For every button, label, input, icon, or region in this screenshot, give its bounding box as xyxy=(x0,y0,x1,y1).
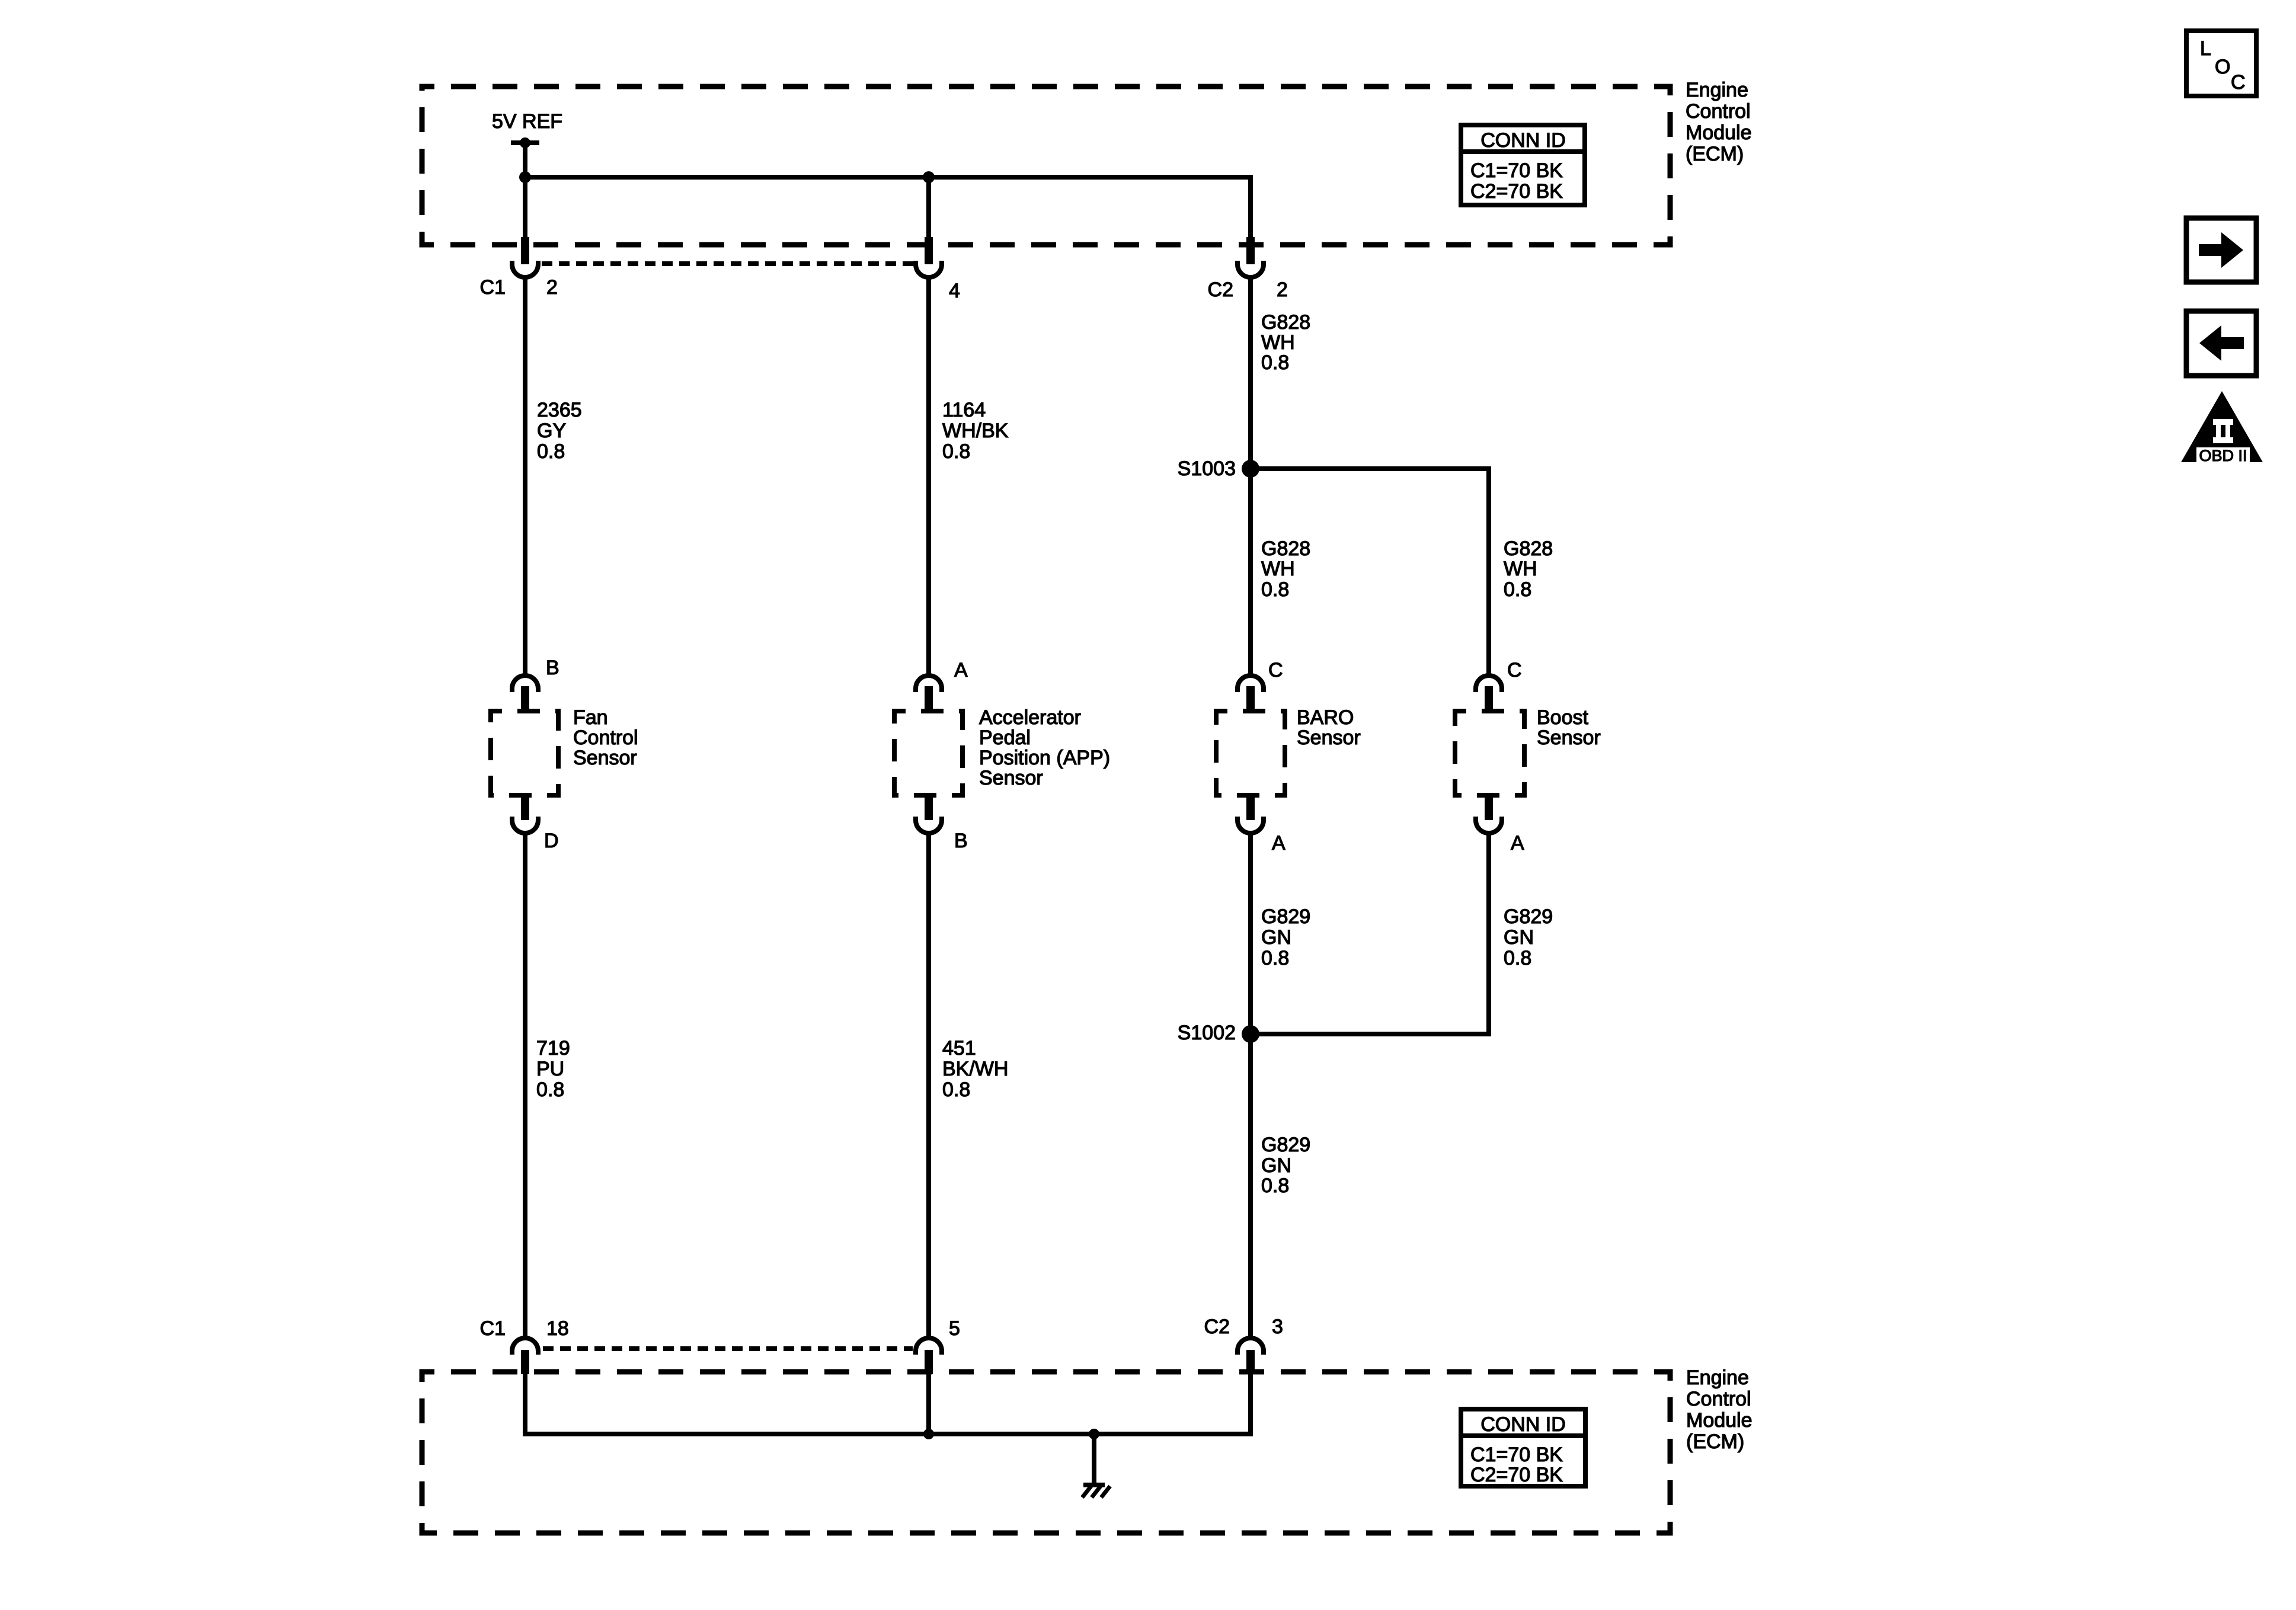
svg-text:719: 719 xyxy=(536,1037,570,1060)
svg-text:Module: Module xyxy=(1686,1409,1753,1432)
svg-text:GN: GN xyxy=(1261,926,1291,949)
svg-text:Pedal: Pedal xyxy=(979,726,1031,749)
svg-text:PU: PU xyxy=(536,1058,564,1080)
svg-text:WH: WH xyxy=(1504,558,1537,580)
svg-text:0.8: 0.8 xyxy=(942,1078,970,1101)
svg-text:18: 18 xyxy=(546,1317,569,1340)
svg-text:G828: G828 xyxy=(1261,537,1310,560)
svg-text:GY: GY xyxy=(537,420,566,442)
svg-text:0.8: 0.8 xyxy=(1261,578,1289,601)
svg-text:2365: 2365 xyxy=(537,399,582,421)
svg-text:L: L xyxy=(2200,37,2211,60)
svg-text:C1: C1 xyxy=(480,1317,506,1340)
svg-text:CONN ID: CONN ID xyxy=(1480,129,1566,152)
svg-text:Control: Control xyxy=(1686,1388,1751,1410)
svg-text:G828: G828 xyxy=(1504,537,1553,560)
svg-text:WH: WH xyxy=(1261,331,1295,354)
svg-text:B: B xyxy=(954,830,968,852)
svg-text:5V REF: 5V REF xyxy=(492,110,562,133)
svg-text:GN: GN xyxy=(1504,926,1534,949)
svg-text:0.8: 0.8 xyxy=(536,1078,564,1101)
svg-text:BARO: BARO xyxy=(1297,706,1354,729)
svg-text:Control: Control xyxy=(1686,100,1751,123)
svg-text:C1=70 BK: C1=70 BK xyxy=(1470,1443,1563,1466)
svg-text:C1: C1 xyxy=(480,276,506,299)
svg-text:G829: G829 xyxy=(1504,905,1553,928)
svg-text:A: A xyxy=(1272,832,1285,854)
svg-text:Sensor: Sensor xyxy=(979,767,1043,789)
svg-text:Boost: Boost xyxy=(1537,706,1588,729)
svg-text:0.8: 0.8 xyxy=(1504,947,1531,969)
svg-text:0.8: 0.8 xyxy=(1261,351,1289,374)
svg-text:1164: 1164 xyxy=(942,399,986,421)
svg-text:5: 5 xyxy=(949,1317,960,1340)
svg-text:451: 451 xyxy=(942,1037,976,1060)
svg-text:Engine: Engine xyxy=(1686,1366,1749,1389)
svg-text:C: C xyxy=(1507,659,1522,681)
svg-text:OBD II: OBD II xyxy=(2199,447,2247,465)
svg-text:0.8: 0.8 xyxy=(1504,578,1531,601)
svg-text:Module: Module xyxy=(1686,121,1752,144)
svg-text:C2=70 BK: C2=70 BK xyxy=(1470,180,1563,203)
svg-text:C: C xyxy=(2231,71,2246,94)
svg-text:C2=70 BK: C2=70 BK xyxy=(1470,1464,1563,1486)
svg-text:Sensor: Sensor xyxy=(1297,726,1361,749)
svg-text:(ECM): (ECM) xyxy=(1686,143,1744,165)
svg-text:C2: C2 xyxy=(1204,1315,1230,1338)
svg-text:Accelerator: Accelerator xyxy=(979,706,1081,729)
svg-text:Sensor: Sensor xyxy=(1537,726,1601,749)
svg-text:0.8: 0.8 xyxy=(1261,1174,1289,1197)
svg-text:Position (APP): Position (APP) xyxy=(979,747,1110,769)
svg-text:0.8: 0.8 xyxy=(537,440,565,463)
svg-text:Engine: Engine xyxy=(1686,79,1748,101)
svg-text:G829: G829 xyxy=(1261,905,1310,928)
svg-text:Sensor: Sensor xyxy=(573,747,637,769)
svg-text:Control: Control xyxy=(573,726,638,749)
svg-text:WH: WH xyxy=(1261,558,1295,580)
svg-text:Fan: Fan xyxy=(573,706,608,729)
svg-text:2: 2 xyxy=(546,276,558,299)
svg-text:B: B xyxy=(546,657,559,679)
svg-text:4: 4 xyxy=(949,280,960,302)
svg-text:GN: GN xyxy=(1261,1154,1291,1177)
svg-text:3: 3 xyxy=(1272,1315,1283,1338)
svg-text:WH/BK: WH/BK xyxy=(942,420,1009,442)
svg-text:D: D xyxy=(544,830,559,852)
svg-text:G828: G828 xyxy=(1261,311,1310,334)
svg-text:A: A xyxy=(1511,832,1524,854)
svg-text:C1=70 BK: C1=70 BK xyxy=(1470,159,1563,182)
svg-text:S1002: S1002 xyxy=(1178,1022,1236,1044)
svg-text:0.8: 0.8 xyxy=(942,440,970,463)
svg-text:S1003: S1003 xyxy=(1178,457,1236,480)
svg-text:C2: C2 xyxy=(1208,279,1233,301)
svg-text:G829: G829 xyxy=(1261,1134,1310,1156)
svg-text:O: O xyxy=(2215,56,2230,78)
svg-text:C: C xyxy=(1268,659,1283,681)
svg-text:2: 2 xyxy=(1277,279,1288,301)
svg-text:(ECM): (ECM) xyxy=(1686,1430,1744,1453)
svg-text:0.8: 0.8 xyxy=(1261,947,1289,969)
svg-text:CONN ID: CONN ID xyxy=(1480,1413,1566,1436)
svg-text:A: A xyxy=(954,659,968,681)
svg-text:BK/WH: BK/WH xyxy=(942,1058,1008,1080)
